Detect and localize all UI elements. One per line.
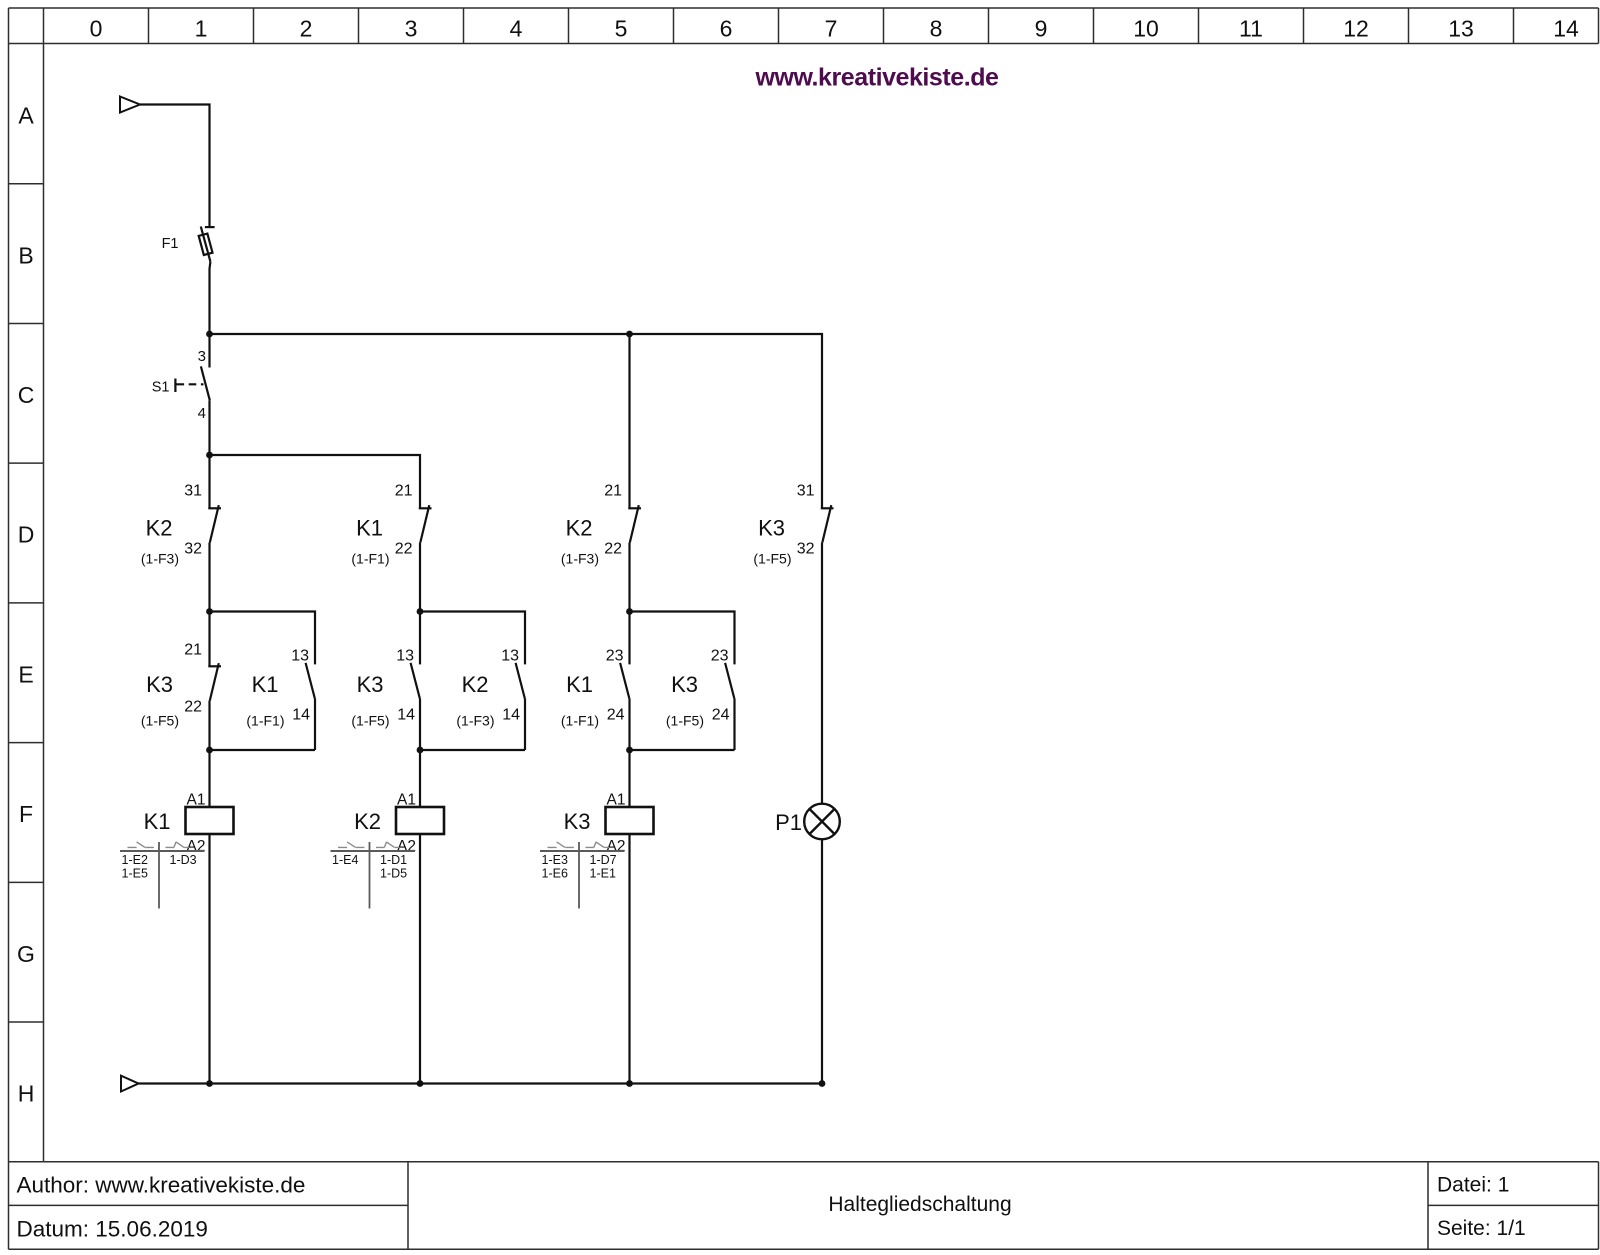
svg-text:21: 21	[604, 483, 622, 500]
svg-text:8: 8	[930, 15, 943, 41]
svg-text:21: 21	[184, 642, 202, 659]
svg-text:7: 7	[825, 15, 838, 41]
svg-text:4: 4	[510, 15, 523, 41]
svg-text:14: 14	[1553, 15, 1579, 41]
svg-text:E: E	[18, 661, 33, 687]
svg-text:C: C	[18, 382, 35, 408]
svg-text:1-D1: 1-D1	[380, 853, 407, 867]
svg-text:K1: K1	[356, 516, 383, 541]
svg-text:A1: A1	[607, 792, 626, 809]
svg-text:3: 3	[198, 348, 206, 365]
svg-text:Datum: 15.06.2019: Datum: 15.06.2019	[17, 1217, 208, 1242]
svg-text:(1-F5): (1-F5)	[141, 713, 179, 729]
svg-text:B: B	[18, 242, 33, 268]
svg-text:3: 3	[405, 15, 418, 41]
svg-text:23: 23	[606, 648, 624, 665]
svg-text:22: 22	[184, 699, 202, 716]
svg-text:(1-F1): (1-F1)	[561, 713, 599, 729]
svg-text:K2: K2	[354, 809, 381, 834]
svg-text:Author: www.kreativekiste.de: Author: www.kreativekiste.de	[17, 1173, 306, 1198]
svg-text:(1-F5): (1-F5)	[753, 551, 791, 567]
svg-text:10: 10	[1133, 15, 1159, 41]
svg-text:G: G	[17, 941, 35, 967]
svg-text:24: 24	[607, 707, 625, 724]
svg-text:F: F	[19, 801, 33, 827]
svg-text:23: 23	[711, 648, 729, 665]
svg-text:1-E5: 1-E5	[122, 866, 148, 880]
svg-text:32: 32	[797, 541, 815, 558]
svg-text:(1-F5): (1-F5)	[666, 713, 704, 729]
svg-text:4: 4	[198, 405, 206, 422]
svg-text:(1-F3): (1-F3)	[141, 551, 179, 567]
svg-text:14: 14	[292, 707, 310, 724]
svg-text:1-D5: 1-D5	[380, 866, 407, 880]
svg-text:13: 13	[1448, 15, 1474, 41]
svg-text:14: 14	[397, 707, 415, 724]
svg-text:Haltegliedschaltung: Haltegliedschaltung	[828, 1193, 1011, 1216]
svg-text:K3: K3	[564, 809, 591, 834]
svg-text:13: 13	[501, 648, 519, 665]
svg-text:(1-F3): (1-F3)	[456, 713, 494, 729]
svg-text:24: 24	[712, 707, 730, 724]
svg-text:1: 1	[195, 15, 208, 41]
svg-text:9: 9	[1035, 15, 1048, 41]
svg-text:H: H	[18, 1081, 35, 1107]
svg-text:2: 2	[300, 15, 313, 41]
svg-text:D: D	[18, 522, 35, 548]
svg-text:A1: A1	[397, 792, 416, 809]
svg-text:22: 22	[604, 541, 622, 558]
svg-text:S1: S1	[152, 380, 170, 396]
svg-text:1-E2: 1-E2	[122, 853, 148, 867]
svg-text:14: 14	[502, 707, 520, 724]
svg-text:A1: A1	[187, 792, 206, 809]
svg-text:(1-F5): (1-F5)	[351, 713, 389, 729]
svg-text:K2: K2	[566, 516, 593, 541]
svg-text:K3: K3	[357, 672, 384, 697]
svg-text:K1: K1	[566, 672, 593, 697]
svg-text:11: 11	[1239, 15, 1263, 41]
svg-text:6: 6	[720, 15, 733, 41]
svg-text:K2: K2	[146, 516, 173, 541]
svg-text:22: 22	[395, 541, 413, 558]
svg-text:K1: K1	[252, 672, 279, 697]
svg-text:(1-F3): (1-F3)	[561, 551, 599, 567]
svg-text:32: 32	[184, 541, 202, 558]
svg-text:1-D7: 1-D7	[590, 853, 617, 867]
svg-text:12: 12	[1343, 15, 1369, 41]
svg-text:5: 5	[615, 15, 628, 41]
svg-text:21: 21	[395, 483, 413, 500]
svg-text:F1: F1	[162, 236, 179, 252]
svg-text:K3: K3	[671, 672, 698, 697]
svg-text:A: A	[18, 103, 34, 129]
svg-text:1-E4: 1-E4	[332, 853, 358, 867]
svg-text:1-E3: 1-E3	[542, 853, 568, 867]
svg-text:0: 0	[90, 15, 103, 41]
svg-text:1-E6: 1-E6	[542, 866, 568, 880]
svg-text:31: 31	[184, 483, 202, 500]
svg-text:www.kreativekiste.de: www.kreativekiste.de	[755, 64, 1000, 92]
svg-text:1-D3: 1-D3	[170, 853, 197, 867]
svg-text:K3: K3	[758, 516, 785, 541]
svg-text:K3: K3	[146, 672, 173, 697]
svg-text:(1-F1): (1-F1)	[351, 551, 389, 567]
svg-text:31: 31	[797, 483, 815, 500]
svg-text:(1-F1): (1-F1)	[246, 713, 284, 729]
svg-text:Datei: 1: Datei: 1	[1437, 1174, 1509, 1197]
svg-text:K2: K2	[462, 672, 489, 697]
svg-text:13: 13	[291, 648, 309, 665]
svg-text:Seite: 1/1: Seite: 1/1	[1437, 1217, 1526, 1240]
svg-text:K1: K1	[144, 809, 171, 834]
svg-text:1-E1: 1-E1	[590, 866, 616, 880]
svg-text:P1: P1	[775, 810, 802, 835]
svg-text:13: 13	[396, 648, 414, 665]
